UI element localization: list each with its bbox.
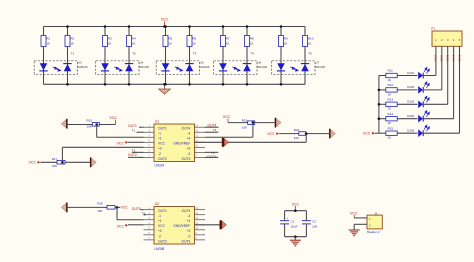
wire LED VCC bus [378, 76, 380, 134]
LED emitter D5a [277, 63, 285, 71]
svg-text:10uF: 10uF [291, 225, 298, 229]
wire J1 gnd stem [353, 224, 355, 229]
power port VCC top [161, 18, 169, 27]
svg-text:DM03: DM03 [446, 55, 450, 62]
wire R18 to VCC [115, 206, 120, 208]
svg-text:OUT3: OUT3 [182, 157, 191, 161]
photo-interrupter U4 box [96, 61, 139, 75]
op-amp IC U2 [144, 206, 206, 244]
wire VCC to U2 pin4 [128, 224, 144, 226]
svg-text:OUT1: OUT1 [158, 209, 167, 213]
wire bottom GND bus [44, 83, 306, 85]
wire R11 to D101 [397, 75, 417, 77]
svg-text:10K: 10K [52, 164, 57, 168]
junction unit5 left bottom [280, 83, 283, 86]
svg-text:U2: U2 [155, 202, 159, 206]
LED D101 [407, 67, 429, 79]
wire R19 tap down [252, 123, 254, 138]
svg-text:VCC: VCC [120, 206, 128, 210]
svg-text:OUT4: OUT4 [182, 127, 191, 131]
light coupling arrows unit3 [175, 67, 183, 71]
junction unit1 right bottom [66, 83, 69, 86]
wire J1 pin1 [354, 217, 367, 219]
wire unit5 left branch [280, 27, 282, 85]
svg-text:R1: R1 [46, 36, 50, 40]
svg-text:-1: -1 [158, 214, 161, 218]
junction unit3 right top [188, 25, 191, 28]
LED emitter D4a [219, 63, 227, 71]
photodiode D3b [185, 64, 193, 72]
wire cap bottom [285, 236, 307, 238]
resistor R9 [279, 36, 289, 47]
wire unit4 right branch [246, 27, 248, 85]
svg-text:T1: T1 [71, 52, 75, 56]
wire port to R18 [68, 206, 107, 208]
photo-interrupter U3 box [34, 61, 77, 75]
wire R12 to D102 [397, 89, 417, 91]
junction unit1 right top [66, 25, 69, 28]
svg-text:OUT1: OUT1 [158, 127, 167, 131]
wire bus to R13 [379, 103, 386, 105]
svg-text:R9: R9 [284, 36, 288, 40]
svg-text:R15: R15 [87, 119, 93, 123]
svg-text:D1D125: D1D125 [200, 65, 210, 69]
svg-text:DM05: DM05 [457, 55, 461, 62]
light coupling arrows unit5 [290, 67, 298, 71]
junction unit3 left top [164, 25, 167, 28]
svg-text:OUT4: OUT4 [182, 209, 191, 213]
svg-text:R4: R4 [132, 36, 136, 40]
svg-text:1K: 1K [192, 42, 196, 46]
svg-text:+4: +4 [187, 219, 191, 223]
resistor R5 [163, 36, 173, 47]
junction unit2 left top [104, 25, 107, 28]
wire OUT4 stub [205, 126, 219, 128]
svg-text:U1: U1 [155, 119, 159, 123]
wire T5 stub [144, 214, 147, 216]
ground (arrow style) top section [159, 84, 171, 94]
wire VCC to R16 [40, 161, 57, 163]
svg-text:GND/VREF: GND/VREF [173, 224, 190, 228]
svg-text:OUT2: OUT2 [158, 157, 167, 161]
wire OUT3 stub [205, 156, 218, 158]
svg-text:Header 2: Header 2 [367, 230, 380, 234]
junction R19 tap [252, 121, 255, 124]
photodiode D4b [243, 64, 251, 72]
port arrow AIN1 (left) [61, 119, 67, 129]
wire T3 stub [205, 151, 218, 153]
op-amp IC U1 [144, 124, 206, 162]
light coupling arrows unit4 [232, 67, 240, 71]
photodiode D5b [301, 64, 309, 72]
wire VCC to R20 [279, 133, 299, 135]
wire C1 upper lead [284, 211, 286, 221]
port arrow AIN2 (right) [90, 157, 96, 167]
power port VCC to U2 pin4 [117, 224, 128, 229]
wire R20 to port [306, 133, 329, 135]
svg-text:U6: U6 [258, 60, 262, 64]
LED D104 [407, 111, 429, 123]
wire top VCC bus [44, 26, 306, 28]
svg-text:DM04: DM04 [451, 55, 455, 62]
wire unit3 right branch [189, 27, 191, 85]
wire header P1 pin1 vertical [435, 46, 437, 75]
photo-interrupter U6 label [257, 60, 267, 69]
svg-text:D1D125: D1D125 [78, 65, 88, 69]
ground J1 [349, 230, 360, 236]
light coupling arrows unit1 [53, 67, 61, 71]
resistor R10 [303, 36, 314, 47]
photo-interrupter U3 label [78, 60, 88, 69]
resistor R20 [294, 128, 306, 140]
svg-text:D105: D105 [407, 129, 414, 133]
junction R15 tap [95, 123, 98, 126]
svg-text:1K: 1K [388, 121, 392, 125]
resistor R15 [386, 126, 397, 139]
wire unit5 right branch [304, 27, 306, 85]
svg-text:VCC: VCC [110, 116, 118, 120]
svg-text:1K: 1K [284, 42, 288, 46]
power port VCC to U1 pin4 [117, 141, 128, 146]
svg-text:R6: R6 [192, 36, 196, 40]
wire header P1 pin2 vertical [441, 46, 443, 90]
port arrow VREF (big) [222, 138, 229, 147]
power port VCC caps [292, 202, 300, 210]
junction unit2 left bottom [104, 83, 107, 86]
svg-text:D1D125: D1D125 [315, 65, 325, 69]
power port VCC J1 [350, 211, 358, 218]
LED D102 [407, 82, 429, 94]
wire OUT1 stub [139, 126, 144, 128]
connector P1 [432, 31, 462, 46]
svg-text:1K: 1K [108, 42, 112, 46]
resistor R7 [221, 36, 231, 47]
svg-text:+1: +1 [158, 219, 162, 223]
svg-text:T5: T5 [308, 52, 312, 56]
junction GND bus [163, 83, 166, 86]
resistor R19 [242, 118, 255, 129]
svg-text:1K: 1K [388, 136, 392, 140]
svg-text:R3: R3 [108, 36, 112, 40]
port arrow AIN3 [329, 129, 335, 139]
svg-text:VCC: VCC [363, 132, 371, 136]
svg-text:R20: R20 [294, 128, 300, 132]
wire to U1 pin12 [205, 136, 253, 138]
svg-text:1K: 1K [308, 42, 312, 46]
svg-text:-3: -3 [187, 234, 190, 238]
svg-text:T4: T4 [250, 52, 254, 56]
resistor R17 [52, 157, 65, 168]
photo-interrupter U7 label [315, 60, 325, 69]
capacitor C1 [280, 217, 298, 229]
svg-text:1K: 1K [388, 92, 392, 96]
photo-interrupter U5 box [156, 61, 199, 75]
svg-text:+1: +1 [158, 137, 162, 141]
junction unit2 right top [128, 25, 131, 28]
svg-text:VCC: VCC [29, 161, 37, 165]
resistor R12 [386, 83, 397, 96]
svg-text:OUT1: OUT1 [128, 124, 137, 128]
svg-text:VCC: VCC [161, 18, 169, 22]
svg-text:OUT2: OUT2 [158, 239, 167, 243]
wire R14 to D104 [397, 118, 417, 120]
wire VCC to LED bus [375, 132, 379, 134]
svg-text:T2: T2 [132, 148, 136, 152]
light coupling arrows unit2 [114, 67, 122, 71]
svg-text:R13: R13 [388, 97, 394, 101]
svg-text:VCC: VCC [223, 115, 231, 119]
wire OUT2 stub [128, 156, 144, 158]
wire bus to R14 [379, 118, 386, 120]
junction cap bottom [294, 235, 297, 238]
svg-text:VCC: VCC [158, 142, 166, 146]
svg-text:D1D125: D1D125 [139, 65, 149, 69]
wire to U2 pin3 [117, 219, 144, 221]
wire VCC to U1 pin4 [128, 141, 144, 143]
wire unit2 left branch [104, 27, 106, 85]
wire to U1 pin3 [97, 136, 144, 138]
svg-text:D103: D103 [407, 100, 414, 104]
junction unit4 right bottom [246, 83, 249, 86]
photo-interrupter U5 label [200, 60, 210, 69]
photo-interrupter U7 box [272, 61, 315, 75]
junction R20 tap [305, 132, 308, 135]
wire T2 stub [132, 151, 144, 153]
svg-text:U3: U3 [78, 60, 82, 64]
wire D101 to header [423, 75, 436, 77]
wire R15 to VCC corner [99, 124, 115, 126]
wire bus to R12 [379, 89, 386, 91]
svg-text:-4: -4 [187, 132, 190, 136]
resistor R3 [103, 36, 113, 47]
junction cap top [294, 209, 297, 212]
svg-text:10K: 10K [97, 209, 102, 213]
resistor R11 [386, 69, 397, 82]
svg-text:R7: R7 [226, 36, 230, 40]
power port VCC (R16 pullup) [29, 161, 41, 165]
connector J1 [367, 215, 382, 229]
wire D105 to header [423, 132, 459, 134]
wire D102 to header [423, 89, 442, 91]
wire R16 tap up [61, 147, 63, 162]
LED emitter D3a [161, 63, 169, 71]
svg-text:R11: R11 [388, 69, 394, 73]
svg-text:R8: R8 [250, 36, 254, 40]
svg-text:LM324: LM324 [155, 164, 165, 168]
capacitor C2 [302, 220, 318, 229]
junction unit4 right top [246, 25, 249, 28]
svg-text:-3: -3 [187, 152, 190, 156]
junction unit3 left bottom [164, 83, 167, 86]
svg-text:VCC: VCC [267, 132, 275, 136]
svg-text:R19: R19 [242, 118, 248, 122]
wire U1 pin11 VREF [195, 141, 307, 143]
junction R16 tap [61, 161, 64, 164]
svg-text:VCC: VCC [158, 224, 166, 228]
resistor R15 [87, 119, 100, 129]
svg-text:C1: C1 [291, 220, 295, 224]
photo-interrupter U6 box [214, 61, 257, 75]
resistor R1 [41, 36, 51, 47]
wire unit1 right branch [67, 27, 69, 85]
port arrow AIN4 [275, 118, 281, 128]
svg-text:D102: D102 [407, 85, 414, 89]
svg-text:R17: R17 [52, 157, 58, 161]
wire cap gnd stem [294, 237, 296, 240]
svg-text:U4: U4 [140, 60, 144, 64]
wire R18 tap down [116, 207, 118, 219]
svg-text:-4: -4 [187, 214, 190, 218]
svg-text:1K: 1K [168, 42, 172, 46]
svg-text:10K: 10K [294, 136, 299, 140]
resistor R14 [386, 112, 397, 125]
svg-text:+3: +3 [187, 229, 191, 233]
svg-text:+4: +4 [187, 137, 191, 141]
svg-text:1K: 1K [388, 107, 392, 111]
resistor R8 [245, 36, 255, 47]
wire bus to R11 [379, 75, 386, 77]
photodiode D1b [63, 64, 71, 72]
junction LED bus row3 [378, 103, 381, 106]
resistor R2 [65, 36, 75, 47]
svg-text:R10: R10 [308, 36, 314, 40]
svg-text:VCC: VCC [117, 224, 125, 228]
svg-text:GND/VREF: GND/VREF [173, 142, 190, 146]
svg-text:LM358: LM358 [155, 247, 165, 251]
junction unit4 left top [222, 25, 225, 28]
junction VCC bus [163, 25, 166, 28]
svg-text:P1: P1 [431, 27, 435, 31]
LED emitter D2a [101, 63, 109, 71]
svg-text:104: 104 [312, 225, 317, 229]
junction unit2 right bottom [128, 83, 131, 86]
wire port to R15 [68, 124, 93, 126]
resistor R6 [187, 36, 197, 47]
power port VCC (R15 pullup) [110, 116, 118, 125]
wire OUT5 stub [141, 209, 144, 211]
svg-text:-1: -1 [158, 132, 161, 136]
svg-text:J1: J1 [375, 211, 379, 215]
ground caps [290, 240, 301, 246]
wire VCC to R19 [228, 122, 248, 124]
wire C1 lower lead [284, 224, 286, 236]
junction LED bus row4 [378, 117, 381, 120]
LED D105 [407, 125, 429, 137]
wire U2 pin11 VREF [195, 224, 220, 226]
LED D103 [407, 96, 429, 108]
wire unit3 left branch [165, 27, 167, 85]
junction R18 tap [116, 206, 119, 209]
svg-text:VCC: VCC [117, 141, 125, 145]
wire R19 to port [255, 122, 275, 124]
svg-text:R15: R15 [388, 126, 394, 130]
svg-text:R5: R5 [168, 36, 172, 40]
wire unit2 right branch [128, 27, 130, 85]
junction LED bus row2 [378, 89, 381, 92]
svg-text:1K: 1K [388, 78, 392, 82]
photo-interrupter U4 label [139, 60, 149, 69]
LED emitter D1a [39, 63, 47, 71]
wire unit1 left branch [43, 27, 45, 85]
wire T1 stub [137, 131, 144, 133]
port arrow AIN5 (left) [61, 203, 67, 213]
junction unit4 left bottom [222, 83, 225, 86]
wire header P1 pin5 vertical [459, 46, 461, 133]
junction unit3 right bottom [188, 83, 191, 86]
svg-text:+2: +2 [158, 147, 162, 151]
svg-text:1K: 1K [226, 42, 230, 46]
wire J1 pin2 [354, 223, 367, 225]
svg-text:D101: D101 [407, 71, 414, 75]
svg-text:-2: -2 [158, 152, 161, 156]
power port VCC (R19 pullup) [223, 115, 231, 123]
svg-text:1K: 1K [70, 42, 74, 46]
wire R16 to port [65, 161, 90, 163]
svg-text:D1D125: D1D125 [257, 65, 267, 69]
photodiode D2b [125, 64, 133, 72]
wire D103 to header [423, 103, 448, 105]
wire C2 upper lead [305, 211, 307, 221]
wire R13 to D103 [397, 103, 417, 105]
wire R15 tap down [96, 125, 98, 138]
wire cap top [285, 210, 307, 212]
wire unit4 left branch [222, 27, 224, 85]
port arrow VREF2 (big) [220, 220, 227, 229]
svg-text:C2: C2 [312, 220, 316, 224]
power port VCC LED bus [363, 132, 375, 136]
svg-text:U7: U7 [316, 60, 320, 64]
svg-text:1K: 1K [132, 42, 136, 46]
resistor R4 [127, 36, 137, 47]
svg-text:10K: 10K [242, 125, 247, 129]
svg-text:1K: 1K [46, 42, 50, 46]
svg-text:+3: +3 [187, 147, 191, 151]
svg-text:R18: R18 [97, 202, 103, 206]
svg-text:U5: U5 [200, 60, 204, 64]
wire C2 lower lead [305, 224, 307, 236]
svg-text:R2: R2 [70, 36, 74, 40]
svg-text:T1: T1 [132, 129, 136, 133]
wire T4 stub [205, 131, 218, 133]
svg-text:OUT5: OUT5 [132, 207, 141, 211]
wire to U1 pin5 [62, 146, 143, 148]
wire R15 to D105 [397, 132, 417, 134]
svg-text:T3: T3 [193, 52, 197, 56]
svg-text:R12: R12 [388, 83, 394, 87]
svg-text:+: + [287, 217, 289, 221]
wire header P1 pin3 vertical [447, 46, 449, 104]
wire D104 to header [423, 118, 453, 120]
resistor R18 [97, 202, 115, 214]
svg-text:T2: T2 [132, 52, 136, 56]
junction unit5 left top [280, 25, 283, 28]
svg-text:OUT2: OUT2 [128, 153, 137, 157]
svg-text:10K: 10K [87, 124, 92, 128]
svg-text:-2: -2 [158, 234, 161, 238]
resistor R13 [386, 97, 397, 110]
power port VCC (R20 pullup) [267, 132, 279, 136]
svg-text:T4: T4 [213, 128, 217, 132]
wire VREF up to R20 tap [305, 134, 307, 143]
svg-text:DM02: DM02 [440, 55, 444, 62]
svg-text:DM01: DM01 [434, 55, 438, 62]
svg-text:OUT3: OUT3 [182, 239, 191, 243]
svg-text:VCC: VCC [292, 202, 300, 206]
wire bus to R15 [379, 132, 386, 134]
svg-text:D104: D104 [407, 114, 414, 118]
wire header P1 pin4 vertical [453, 46, 455, 118]
svg-text:VCC: VCC [350, 211, 358, 215]
